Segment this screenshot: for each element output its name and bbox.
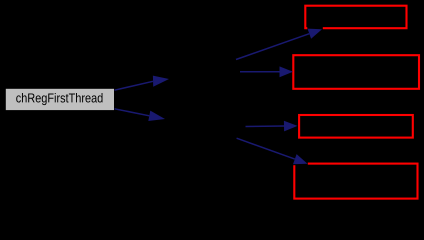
edge hidden node 2 to red node D [237,138,308,165]
edge hidden node 1 to red node A [236,27,323,60]
edge hidden node 1 to red node B [240,66,293,77]
red node D (bottom) [294,164,417,199]
edge chRegFirstThread to hidden node 1 [115,76,170,91]
edge hidden node 2 to red node C [246,121,298,132]
red node C [299,115,413,138]
edge chRegFirstThread to hidden node 2 [115,109,166,121]
node chRegFirstThread (current, grey) [6,89,114,110]
red node B [293,55,419,89]
red node A (truncated, top) [305,6,406,29]
